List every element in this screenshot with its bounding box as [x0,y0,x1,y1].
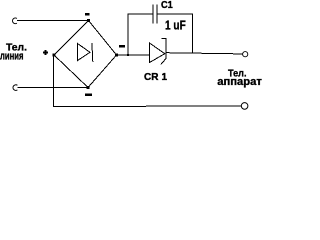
svg-text:линия: линия [0,51,24,63]
svg-text:C1: C1 [161,0,173,11]
svg-text:1 uF: 1 uF [165,19,186,33]
svg-text:аппарат: аппарат [217,76,262,88]
svg-text:CR1: CR1 [144,72,167,83]
